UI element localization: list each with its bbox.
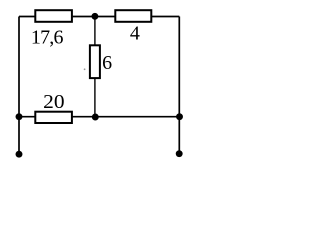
svg-text:17,6: 17,6 — [31, 26, 64, 48]
junction node bottom right — [176, 113, 183, 120]
svg-text:20: 20 — [43, 91, 64, 113]
junction node bottom left — [16, 113, 23, 120]
resistor R4 value 6 — [90, 45, 100, 78]
wire top horizontal — [19, 16, 179, 18]
junction node top center — [91, 13, 98, 20]
resistor R2 value 4 — [115, 10, 151, 22]
wire left vertical — [18, 17, 20, 155]
resistor R1 value 17,6 — [35, 10, 72, 22]
terminal node right — [176, 150, 183, 157]
svg-text:6: 6 — [102, 52, 112, 74]
junction node bottom center — [92, 114, 99, 121]
stray speck — [84, 68, 86, 70]
svg-text:4: 4 — [130, 23, 140, 45]
resistor R3 value 20 — [35, 112, 72, 123]
wire right vertical — [178, 17, 180, 155]
wire center vertical — [94, 16, 96, 117]
wire bottom horizontal — [19, 116, 179, 118]
terminal node left — [16, 151, 23, 158]
